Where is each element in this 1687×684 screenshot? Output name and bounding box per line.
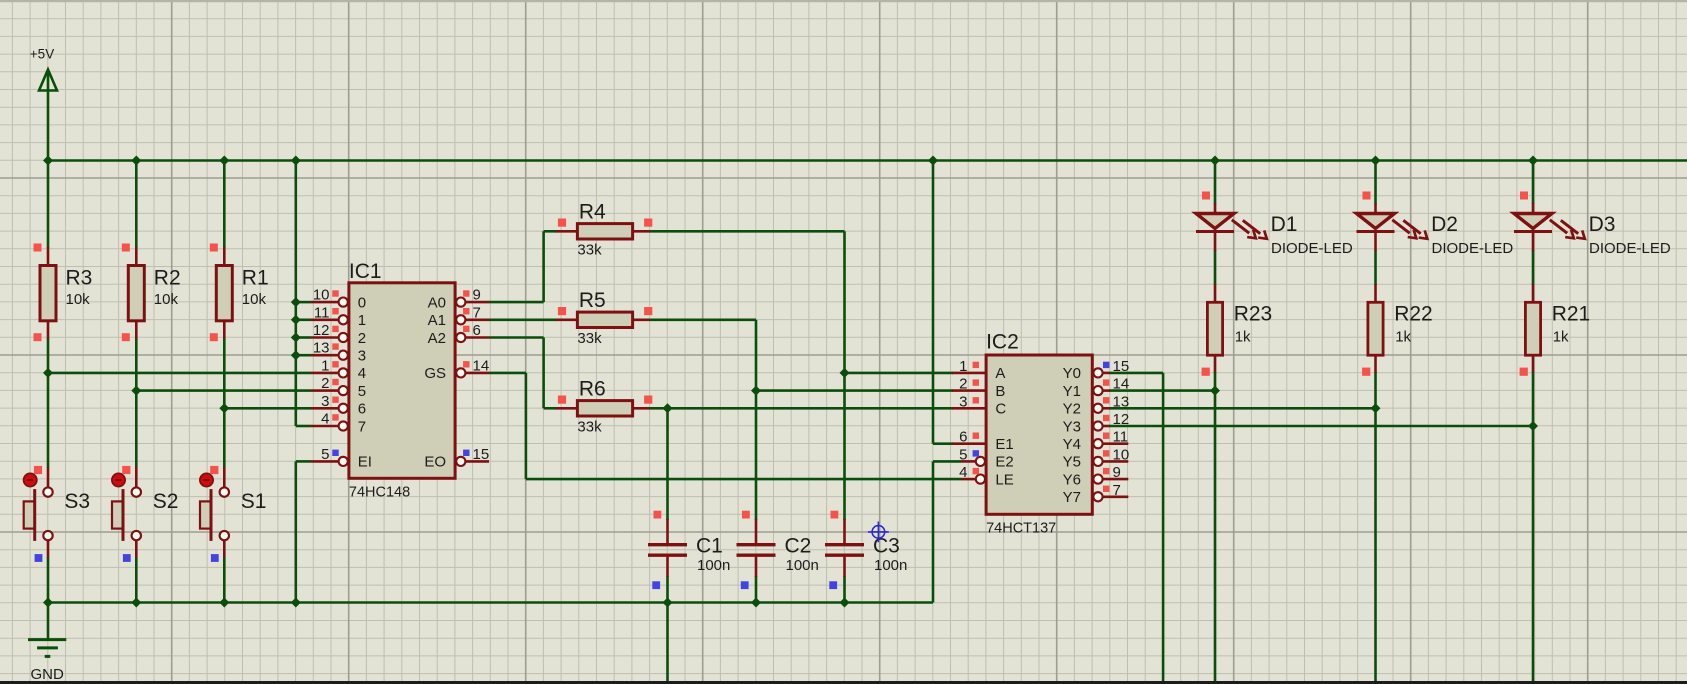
svg-text:5: 5 bbox=[959, 446, 967, 463]
svg-text:33k: 33k bbox=[577, 418, 602, 435]
svg-text:2: 2 bbox=[358, 330, 366, 347]
svg-text:LE: LE bbox=[995, 471, 1013, 488]
svg-text:IC1: IC1 bbox=[349, 260, 382, 283]
svg-text:1k: 1k bbox=[1553, 329, 1569, 346]
svg-text:R23: R23 bbox=[1234, 302, 1273, 325]
svg-text:1: 1 bbox=[959, 358, 967, 375]
svg-text:14: 14 bbox=[473, 357, 490, 374]
svg-text:11: 11 bbox=[314, 304, 330, 321]
svg-text:9: 9 bbox=[473, 287, 481, 304]
svg-text:74HCT137: 74HCT137 bbox=[986, 521, 1056, 537]
svg-text:Y7: Y7 bbox=[1063, 489, 1081, 506]
svg-text:3: 3 bbox=[321, 393, 329, 410]
svg-text:15: 15 bbox=[1113, 358, 1130, 375]
svg-text:7: 7 bbox=[358, 418, 366, 435]
svg-text:13: 13 bbox=[313, 340, 330, 357]
svg-text:Y0: Y0 bbox=[1063, 365, 1081, 382]
svg-text:EI: EI bbox=[358, 454, 372, 471]
svg-text:7: 7 bbox=[473, 304, 481, 321]
svg-text:4: 4 bbox=[321, 411, 329, 428]
svg-text:E2: E2 bbox=[995, 454, 1013, 471]
svg-text:3: 3 bbox=[959, 393, 967, 410]
svg-text:R4: R4 bbox=[579, 201, 606, 224]
svg-text:DIODE-LED: DIODE-LED bbox=[1589, 240, 1671, 257]
svg-text:R3: R3 bbox=[66, 267, 93, 290]
svg-text:R1: R1 bbox=[242, 267, 269, 290]
svg-text:S3: S3 bbox=[64, 490, 90, 513]
svg-text:12: 12 bbox=[1113, 411, 1130, 428]
svg-text:100n: 100n bbox=[874, 557, 907, 574]
svg-text:1: 1 bbox=[358, 312, 366, 329]
svg-text:33k: 33k bbox=[577, 241, 602, 258]
svg-text:15: 15 bbox=[473, 446, 490, 463]
svg-text:3: 3 bbox=[358, 348, 366, 365]
svg-text:Y3: Y3 bbox=[1063, 418, 1081, 435]
svg-text:R2: R2 bbox=[154, 267, 181, 290]
svg-text:5: 5 bbox=[358, 383, 366, 400]
svg-text:14: 14 bbox=[1113, 376, 1130, 393]
svg-text:1k: 1k bbox=[1235, 329, 1251, 346]
svg-text:IC2: IC2 bbox=[986, 331, 1019, 354]
svg-text:Y5: Y5 bbox=[1063, 454, 1081, 471]
svg-text:D2: D2 bbox=[1431, 213, 1458, 236]
svg-text:100n: 100n bbox=[697, 557, 730, 574]
svg-text:A1: A1 bbox=[428, 312, 446, 329]
svg-text:4: 4 bbox=[358, 365, 366, 382]
svg-text:A0: A0 bbox=[428, 294, 446, 311]
svg-text:10k: 10k bbox=[242, 291, 267, 308]
svg-text:10k: 10k bbox=[154, 291, 179, 308]
svg-text:Y4: Y4 bbox=[1063, 436, 1081, 453]
svg-text:DIODE-LED: DIODE-LED bbox=[1271, 240, 1353, 257]
svg-text:13: 13 bbox=[1113, 393, 1130, 410]
svg-text:33k: 33k bbox=[577, 330, 602, 347]
svg-text:10: 10 bbox=[313, 287, 330, 304]
svg-text:C1: C1 bbox=[696, 535, 723, 558]
svg-text:C2: C2 bbox=[785, 535, 812, 558]
svg-text:5: 5 bbox=[321, 446, 329, 463]
svg-text:2: 2 bbox=[321, 375, 329, 392]
svg-text:2: 2 bbox=[959, 376, 967, 393]
svg-text:D3: D3 bbox=[1589, 213, 1616, 236]
svg-text:EO: EO bbox=[424, 454, 446, 471]
svg-text:10: 10 bbox=[1113, 446, 1130, 463]
svg-text:GND: GND bbox=[31, 666, 65, 683]
svg-text:R22: R22 bbox=[1394, 302, 1433, 325]
svg-text:7: 7 bbox=[1113, 482, 1121, 499]
svg-text:A: A bbox=[995, 365, 1005, 382]
svg-text:+5V: +5V bbox=[30, 47, 54, 62]
svg-text:B: B bbox=[995, 383, 1005, 400]
svg-text:R5: R5 bbox=[579, 289, 606, 312]
svg-text:12: 12 bbox=[313, 322, 330, 339]
svg-text:A2: A2 bbox=[428, 330, 446, 347]
svg-text:Y6: Y6 bbox=[1063, 471, 1081, 488]
svg-text:1: 1 bbox=[321, 357, 329, 374]
svg-text:Y2: Y2 bbox=[1063, 401, 1081, 418]
svg-text:DIODE-LED: DIODE-LED bbox=[1432, 240, 1514, 257]
svg-text:9: 9 bbox=[1113, 464, 1121, 481]
svg-text:74HC148: 74HC148 bbox=[349, 485, 410, 501]
svg-text:10k: 10k bbox=[66, 291, 91, 308]
svg-text:D1: D1 bbox=[1271, 213, 1298, 236]
svg-text:Y1: Y1 bbox=[1063, 383, 1081, 400]
svg-text:GS: GS bbox=[424, 365, 446, 382]
svg-text:E1: E1 bbox=[995, 436, 1013, 453]
svg-text:6: 6 bbox=[358, 401, 366, 418]
svg-text:100n: 100n bbox=[786, 557, 819, 574]
svg-text:11: 11 bbox=[1113, 429, 1129, 446]
svg-text:S2: S2 bbox=[153, 490, 179, 513]
svg-text:4: 4 bbox=[959, 464, 967, 481]
svg-text:6: 6 bbox=[473, 322, 481, 339]
svg-text:6: 6 bbox=[959, 429, 967, 446]
svg-text:R21: R21 bbox=[1552, 302, 1591, 325]
svg-text:R6: R6 bbox=[579, 378, 606, 401]
svg-text:0: 0 bbox=[358, 294, 366, 311]
svg-text:C: C bbox=[995, 401, 1006, 418]
svg-text:S1: S1 bbox=[241, 490, 267, 513]
svg-text:1k: 1k bbox=[1395, 329, 1411, 346]
